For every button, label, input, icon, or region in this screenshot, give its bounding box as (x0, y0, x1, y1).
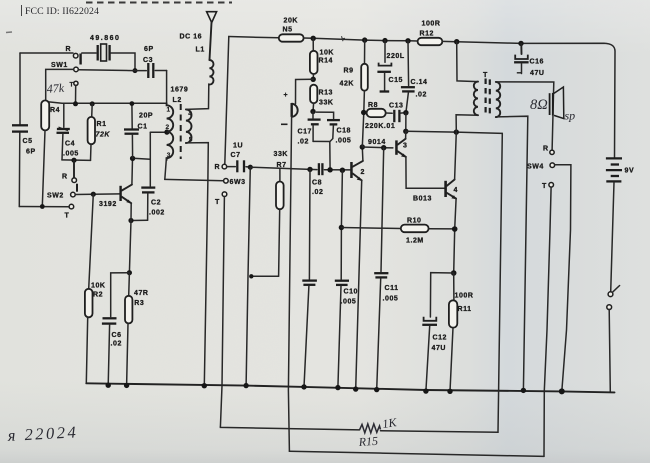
capacitor C2 .002 (141, 188, 165, 221)
svg-text:R4: R4 (50, 107, 60, 114)
L2 core dashed (180, 104, 182, 159)
svg-text:220K.01: 220K.01 (365, 123, 395, 130)
oscillator top bus (47, 102, 167, 104)
svg-text:.02: .02 (312, 189, 323, 196)
svg-text:L1: L1 (196, 47, 205, 54)
svg-text:6W3: 6W3 (230, 179, 246, 186)
svg-text:T: T (215, 199, 220, 206)
svg-text:42K: 42K (340, 81, 355, 88)
wire node down to transformer primary (457, 42, 478, 82)
wire L2 pin5 down to ground bus (186, 143, 208, 386)
wire C2 bottom to Q1 emitter (131, 219, 148, 221)
switch SW4 T contact (549, 183, 554, 188)
wire crystal to C3 node (111, 53, 135, 71)
svg-text:1U: 1U (233, 143, 243, 150)
svg-text:.002: .002 (149, 210, 165, 217)
wire R-terminal riser (receive bus) (225, 37, 229, 165)
svg-text:.005: .005 (63, 151, 79, 158)
wire Q1 collector up to node (131, 158, 134, 184)
antenna (207, 12, 217, 23)
capacitor C18 .005 (316, 112, 351, 144)
svg-text:C.14: C.14 (411, 79, 428, 86)
svg-text:47R: 47R (134, 290, 149, 297)
switch SW1 contact (74, 67, 79, 72)
capacitor C6 .02 (102, 273, 129, 386)
svg-text:100R: 100R (422, 21, 441, 28)
node bus R1 (90, 101, 95, 106)
svg-text:C13: C13 (389, 103, 404, 110)
capacitor C3 6P (135, 46, 167, 78)
svg-text:sp: sp (565, 109, 576, 123)
svg-text:C5: C5 (23, 138, 33, 145)
switch SW1 T contact (74, 81, 78, 85)
svg-text:R12: R12 (420, 31, 435, 38)
top supply bus left (229, 37, 279, 38)
resistor R14 10K (310, 38, 334, 79)
transformer T secondary winding (496, 82, 500, 117)
capacitor C16 47U (514, 43, 544, 77)
svg-text:8Ω: 8Ω (530, 97, 548, 113)
svg-text:72K: 72K (96, 132, 111, 139)
R terminal circle (222, 164, 227, 169)
wire SW1 contact to node (78, 69, 135, 72)
node bus T-line (73, 101, 78, 106)
switch SW4 R contact (550, 150, 554, 154)
node Q4 emitter C12 (451, 270, 457, 276)
switch SW2 R contact (72, 178, 77, 183)
svg-text:C10: C10 (344, 289, 359, 296)
L2 labels (166, 87, 193, 160)
node C10 top (340, 168, 345, 173)
svg-text:9014: 9014 (368, 139, 386, 146)
bus node R11 (447, 389, 452, 394)
wire power switch to ground bus (609, 310, 610, 392)
wire secondary top to speaker (496, 82, 554, 150)
bus node speaker riser (521, 388, 526, 393)
inductor L1 DC16 (209, 60, 213, 85)
svg-text:10K: 10K (320, 50, 335, 57)
wire node to microphone (296, 79, 314, 104)
transistor Q4 B013 (413, 180, 458, 203)
resistor R8 220K (365, 102, 395, 130)
wire C17/C18 joint stem (313, 141, 330, 169)
svg-text:R15: R15 (357, 434, 378, 449)
wire SW4 contact right and down to ground bus (555, 165, 571, 392)
node R8 left (361, 110, 366, 115)
capacitor C8 .02 (312, 163, 323, 196)
wire node to L2 pin2 line (135, 157, 150, 160)
node Q4 emitter R10 (452, 226, 458, 232)
svg-text:B013: B013 (413, 196, 432, 203)
bus node L2 pin5 (202, 383, 207, 388)
svg-text:R7: R7 (277, 162, 287, 169)
node bus R14 (311, 36, 316, 41)
svg-text:C12: C12 (433, 335, 448, 342)
wire L2 pin4 to L1 (186, 84, 209, 109)
svg-text:C8: C8 (312, 180, 322, 187)
node Q2 collector rail (360, 144, 365, 149)
wire C7gnd riser down to bus (246, 167, 250, 385)
wire R2 from SW2 node down (89, 194, 94, 289)
wire left top to SW1 R contact (20, 52, 73, 54)
node R7/gnd riser (249, 274, 253, 278)
resistor R4 (41, 100, 60, 130)
svg-text:R: R (543, 146, 549, 153)
svg-text:3: 3 (167, 152, 171, 159)
resistor R13 33K (310, 85, 333, 112)
node R12 right (454, 39, 459, 44)
svg-text:C16: C16 (530, 59, 545, 66)
wire R7 bottom to ground riser (251, 275, 279, 277)
transistor Q2 9014 (350, 161, 365, 181)
svg-text:R11: R11 (458, 306, 472, 313)
bus node Q2 emitter (353, 386, 358, 391)
svg-text:R14: R14 (319, 58, 334, 65)
bus node R3 (124, 383, 129, 388)
wire antenna to L1 (210, 23, 212, 60)
svg-text:20K: 20K (284, 18, 299, 25)
page edge dashed line (86, 2, 232, 4)
wire T contact down to bus (75, 86, 77, 105)
svg-text:10K: 10K (91, 283, 106, 290)
wire pole to crystal (82, 52, 96, 54)
svg-text:C6: C6 (112, 332, 122, 339)
svg-text:.005: .005 (383, 296, 399, 303)
svg-text:R: R (62, 174, 68, 181)
svg-text:R10: R10 (407, 218, 422, 225)
transistor Q3 9014 (368, 139, 407, 158)
svg-text:.02: .02 (416, 92, 427, 99)
PA supply rail (406, 131, 503, 133)
node C4/R terminal (71, 158, 76, 163)
capacitor C7 1U (227, 143, 250, 173)
svg-text:49.860: 49.860 (90, 35, 120, 42)
svg-text:33K: 33K (274, 151, 289, 158)
svg-text:.005: .005 (341, 299, 357, 306)
svg-text:R2: R2 (93, 292, 103, 299)
capacitor C5 6P (12, 53, 36, 207)
svg-text:4: 4 (188, 111, 192, 118)
wire Q2 emitter down to bus (356, 180, 362, 389)
svg-text:6P: 6P (26, 149, 36, 156)
svg-text:.005: .005 (336, 138, 352, 145)
svg-text:C18: C18 (337, 128, 352, 135)
node crystal/C3 (133, 68, 138, 73)
svg-text:R: R (215, 164, 221, 171)
wire Q4 collector up to rail (455, 132, 457, 179)
resistor R2 10K (85, 283, 106, 384)
capacitor C1 20P (124, 104, 153, 159)
capacitor C17 .02 (298, 112, 321, 146)
svg-text:100R: 100R (455, 293, 474, 300)
driver rail to Q3 base (362, 146, 393, 149)
wire battery to power switch (611, 182, 614, 291)
node L2 pin2 (164, 130, 169, 135)
svg-text:20P: 20P (139, 113, 153, 120)
svg-text:C1: C1 (138, 124, 148, 131)
capacitor C4 .005 (57, 104, 79, 160)
svg-text:4: 4 (454, 187, 458, 194)
wire Q4 emitter down (454, 199, 456, 273)
wire node down to R contact (73, 160, 75, 178)
svg-text:.02: .02 (111, 341, 122, 348)
resistor R1 72K (88, 104, 111, 160)
resistor R3 47R (125, 273, 149, 386)
svg-text:N5: N5 (283, 27, 293, 34)
wire SW2 to Q1 base (75, 193, 119, 196)
node SW2/R2 (91, 192, 96, 197)
svg-text:T: T (542, 183, 547, 190)
svg-text:DC 16: DC 16 (180, 34, 203, 41)
6W3 terminal circle (224, 179, 229, 184)
capacitor C10 .005 (335, 170, 358, 387)
node R10 left (339, 225, 344, 230)
svg-text:+: + (284, 92, 289, 99)
node C1/Q1/L2 (130, 156, 135, 161)
svg-text:я 22024: я 22024 (6, 422, 78, 445)
switch SW2 contact (71, 192, 76, 197)
wire Q1 emitter down (129, 203, 131, 272)
wire R15 to PA rail riser (381, 133, 503, 432)
svg-text:2: 2 (361, 169, 365, 176)
node PA rail left (403, 129, 408, 134)
capacitor C11 .005 (374, 148, 398, 390)
svg-text:1.2M: 1.2M (406, 238, 424, 245)
switch SW2 pole bar (76, 184, 78, 192)
capacitor C14 .02 (401, 41, 428, 113)
switch SW1 pole bar (79, 54, 81, 65)
svg-text:1679: 1679 (171, 87, 189, 94)
switch SW1 R contact (73, 53, 78, 58)
node C17/C18/C8 (327, 167, 332, 172)
wire C5 to T contact (19, 206, 69, 208)
node bus C14/R12 (405, 38, 410, 43)
node emitter / C6 / R3 (127, 270, 132, 275)
T terminal circle (222, 192, 227, 197)
capacitor C9 (302, 169, 317, 387)
tick mark on bus (340, 36, 345, 41)
svg-text:47U: 47U (432, 345, 447, 352)
node R13/C17/C18 (310, 109, 315, 114)
crystal 49.860 (90, 35, 120, 61)
node C16 (518, 41, 523, 46)
svg-text:9V: 9V (625, 168, 635, 175)
bus node C10 (335, 385, 340, 390)
wire R4 bottom to SW2 T rail (42, 130, 45, 206)
svg-text:47U: 47U (530, 70, 545, 77)
bus node SW4 (559, 388, 565, 394)
svg-text:C7: C7 (231, 152, 241, 159)
capacitor C12 47U (422, 273, 453, 392)
wire SW4 T down through bus to mic rail (544, 187, 551, 456)
svg-text:33K: 33K (319, 100, 334, 107)
svg-text:R: R (66, 46, 72, 53)
resistor R15 1K zigzag (360, 424, 381, 433)
wire primary bottom to PA rail (456, 115, 478, 132)
resistor R10 1.2M (341, 218, 454, 245)
node bus C15 (382, 38, 387, 43)
node bus R9 (362, 37, 367, 42)
svg-text:2: 2 (166, 124, 170, 131)
battery 9V (606, 158, 634, 181)
svg-text:C17: C17 (298, 129, 313, 136)
svg-text:C3: C3 (143, 57, 153, 64)
capacitor C13 .01 (389, 103, 406, 123)
svg-text:220L: 220L (387, 53, 405, 60)
svg-text:C15: C15 (389, 77, 404, 84)
transistor Q1 3192 (99, 185, 132, 208)
speaker 8ohm SP (530, 87, 575, 123)
svg-text:SW2: SW2 (47, 193, 64, 200)
svg-text:SW4: SW4 (527, 164, 544, 171)
svg-text:FCC ID: II622024: FCC ID: II622024 (25, 6, 99, 17)
resistor R12 100R (418, 21, 443, 46)
svg-text:C2: C2 (151, 200, 161, 207)
node Q1 emitter / C2 (128, 218, 133, 223)
switch SW2 T contact (69, 204, 74, 209)
node Q4 collector rail (454, 129, 459, 134)
wire L2 bottom to 6W3 rail (165, 158, 167, 179)
node C11 top (381, 145, 386, 150)
top bus right to battery (442, 41, 615, 157)
resistor N5 20K (279, 18, 304, 42)
resistor R7 33K (274, 151, 289, 276)
resistor R9 42K (340, 40, 368, 147)
bus node C7 riser (243, 383, 248, 388)
svg-text:SW1: SW1 (51, 62, 68, 69)
inductor L2 secondary winding (186, 109, 192, 143)
power switch (607, 286, 620, 310)
transformer T core (483, 72, 490, 114)
svg-text:T: T (483, 72, 488, 79)
svg-text:R8: R8 (368, 102, 378, 109)
wire L2 pin2 down to C2 (149, 132, 151, 186)
svg-text:T: T (70, 82, 74, 89)
node R4/T rail (40, 204, 45, 209)
bus node C12 (423, 388, 428, 393)
wire Q3 collector up (405, 131, 407, 138)
wire pin2 tap (150, 131, 167, 133)
FCC ID header (22, 5, 100, 17)
stray mark left (6, 31, 12, 34)
microphone (281, 92, 298, 124)
top bus segment (304, 38, 418, 41)
wire C14 node down to PA rail (405, 113, 407, 132)
node C7 right (248, 165, 253, 170)
svg-text:1: 1 (167, 107, 171, 114)
wire C3 down L2 spine top (166, 71, 168, 104)
wire microphone down through bus to T rail (288, 117, 291, 451)
svg-text:C4: C4 (65, 141, 75, 148)
svg-text:3192: 3192 (99, 201, 117, 208)
svg-text:.02: .02 (298, 139, 309, 146)
capacitor C15 220L (377, 41, 404, 92)
T rail with R15 (220, 427, 359, 430)
T mic rail bottom (289, 451, 544, 456)
svg-text:C11: C11 (385, 285, 399, 292)
svg-text:47k: 47k (46, 81, 65, 96)
svg-text:T: T (65, 213, 70, 220)
transformer T primary winding (474, 82, 478, 116)
wire Q3 emitter to Q4 base (406, 157, 444, 188)
node bus C1 (130, 101, 135, 106)
svg-text:3: 3 (403, 143, 407, 150)
6W3 rail (165, 179, 224, 180)
bus node C9 (301, 384, 306, 389)
bus node C11 (374, 387, 379, 392)
svg-text:R1: R1 (97, 121, 107, 128)
ground bus (86, 383, 614, 392)
node R14/R13/mic (311, 77, 316, 82)
node C13/C14 (403, 110, 408, 115)
wire C4-R1 bottom rail (62, 159, 91, 162)
wire Q2 collector up (361, 147, 364, 161)
switch SW4 contact (550, 163, 555, 168)
bus node C6 (106, 383, 111, 388)
wire secondary bottom down to ground bus (496, 116, 528, 390)
wire T terminal down through bus to R15 rail (220, 197, 224, 427)
wire SW1 left down to R4 (46, 69, 74, 100)
svg-text:L2: L2 (173, 97, 182, 104)
svg-text:R9: R9 (344, 68, 354, 75)
audio input rail C7 to Q2 base (250, 167, 350, 170)
svg-text:R13: R13 (319, 90, 334, 97)
node C9 top (307, 167, 312, 172)
resistor R11 100R (449, 273, 474, 391)
inductor L2 primary winding (167, 103, 174, 160)
svg-text:R3: R3 (134, 300, 144, 307)
svg-text:6P: 6P (144, 46, 154, 53)
